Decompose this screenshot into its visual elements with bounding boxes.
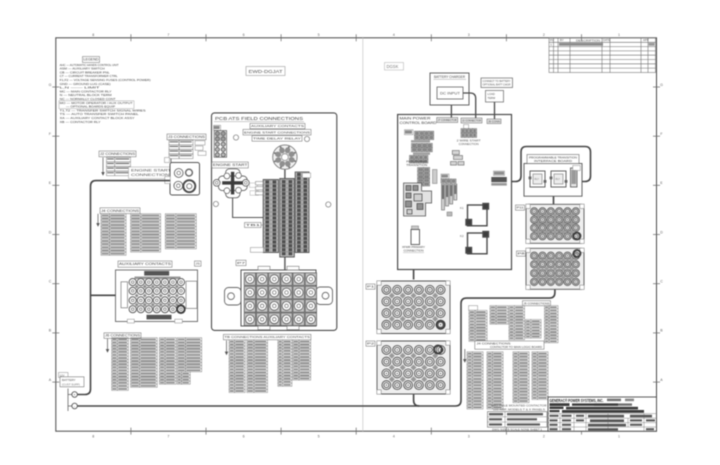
J3 side stub boxes <box>165 141 207 163</box>
PCB mounting holes <box>213 135 331 207</box>
svg-text:P1: P1 <box>367 285 375 289</box>
board DIP fuse strips <box>442 184 457 216</box>
J4 contactor col 3 <box>513 352 529 403</box>
svg-text:P2: P2 <box>367 342 375 346</box>
svg-text:DATE: DATE <box>603 38 610 42</box>
connector table J6 col 4b <box>177 372 190 384</box>
svg-text:CONTROL BOARD: CONTROL BOARD <box>400 121 437 125</box>
transfer start connection block <box>165 163 200 196</box>
engine start sub-label <box>243 129 311 135</box>
board relay K2 loop <box>466 232 489 254</box>
J5 P1 ref box <box>469 306 478 311</box>
svg-text:TERM: TERM <box>488 96 496 100</box>
svg-text:D: D <box>660 230 663 234</box>
svg-text:RLY: RLY <box>556 178 561 181</box>
connect to battery note box <box>481 78 513 88</box>
connector table J5 col 5 <box>545 306 559 343</box>
contactor block P2 label <box>366 341 375 346</box>
J4 contactor col 1 <box>467 352 483 409</box>
svg-text:J4 CONNECTIONS: J4 CONNECTIONS <box>101 209 139 213</box>
engine start DIN connector (cross) <box>213 169 249 198</box>
zone ticks and letters side borders <box>52 87 660 382</box>
J4 contactor col 4 <box>532 352 548 400</box>
connector table J3 <box>169 140 193 158</box>
connector table J6 col 4 <box>177 338 202 372</box>
svg-text:(CUST SUPP): (CUST SUPP) <box>62 382 80 386</box>
wire branch to auxiliary contacts block <box>91 294 116 296</box>
aux contacts ref J1 <box>195 261 202 266</box>
J2 connector label <box>461 118 482 123</box>
revision history table <box>549 38 656 73</box>
svg-text:P11: P11 <box>517 206 524 210</box>
svg-text:CONNECTION: CONNECTION <box>459 142 479 146</box>
J7 connector label <box>437 118 458 123</box>
drawing id box EWD-DGJAT <box>246 67 285 76</box>
main control board title <box>400 117 437 125</box>
connector table J4 col 2 <box>131 214 161 252</box>
svg-text:J2 CONNECTOR: J2 CONNECTOR <box>462 119 481 123</box>
svg-text:K2: K2 <box>460 234 464 238</box>
J4 contactor header <box>475 341 544 349</box>
board output label to transition board <box>491 171 507 186</box>
svg-text:6: 6 <box>243 33 245 37</box>
svg-text:DGSK: DGSK <box>387 64 399 69</box>
svg-text:CONNECTION: CONNECTION <box>404 248 424 252</box>
battery charger box <box>430 73 469 105</box>
svg-text:K1: K1 <box>460 206 464 210</box>
svg-text:4: 4 <box>393 435 395 439</box>
svg-text:BY: BY <box>560 38 564 42</box>
TB connections header <box>223 334 311 339</box>
transition board relay 2 <box>550 171 568 187</box>
board J6 header + pin grids <box>405 130 434 163</box>
battery terminal posts <box>68 389 77 412</box>
svg-text:LOAD: LOAD <box>488 92 495 96</box>
svg-text:4: 4 <box>393 33 395 37</box>
P11 highlighted terminal <box>574 233 581 240</box>
legend abbreviation text lines <box>60 63 151 124</box>
wire main board to contactor P1 <box>413 270 415 280</box>
wire DC input to board J2 <box>463 93 476 118</box>
wire charger to board J7 <box>450 105 452 118</box>
svg-text:J3 CONNECTIONS: J3 CONNECTIONS <box>168 135 205 139</box>
board center small components <box>451 151 465 166</box>
svg-text:J4 CONNECTIONS: J4 CONNECTIONS <box>477 342 511 346</box>
J9 connector label <box>487 119 501 124</box>
svg-text:J7 CONNECTOR: J7 CONNECTOR <box>438 118 457 122</box>
board lower pin strip <box>418 168 430 187</box>
connector table J5 header <box>523 301 551 306</box>
svg-text:APP: APP <box>643 38 649 42</box>
svg-text:TRANSITION: TRANSITION <box>406 163 427 167</box>
svg-text:LEGEND: LEGEND <box>84 58 100 62</box>
svg-text:J5 CONNECTIONS: J5 CONNECTIONS <box>524 301 550 305</box>
contactor block P2 <box>377 341 450 394</box>
wire transition board to contactor P11 <box>553 196 555 204</box>
svg-text:J1: J1 <box>196 262 201 266</box>
svg-text:7: 7 <box>167 435 169 439</box>
time delay sub-label <box>252 136 302 142</box>
PCB ATS field connections block outline <box>212 113 337 331</box>
svg-text:1: 1 <box>618 33 620 37</box>
svg-text:2: 2 <box>543 33 545 37</box>
terminal block P7 (4x6 screw block) <box>225 266 333 329</box>
svg-text:5: 5 <box>318 33 320 37</box>
svg-text:5: 5 <box>318 435 320 439</box>
svg-text:GENERAC® POWER SYSTEMS, INC.: GENERAC® POWER SYSTEMS, INC. <box>550 398 604 403</box>
svg-text:C: C <box>49 280 52 284</box>
zone ticks and numbers top border <box>131 34 582 434</box>
title block <box>548 397 657 431</box>
wire from J3 table to trans start block <box>170 159 172 164</box>
connector table J4 col 3 <box>165 214 196 249</box>
connector table J4 header <box>100 208 140 214</box>
connector table J6 col 1 <box>112 338 129 391</box>
sheet centerline <box>362 38 364 431</box>
svg-text:EWD-DGJAT: EWD-DGJAT <box>249 69 283 74</box>
board relay K1 loop <box>466 204 489 226</box>
board J2 remote connector <box>457 125 482 146</box>
terminal strip TB1 <box>263 180 278 253</box>
engine start pin labels <box>250 183 258 187</box>
svg-text:TB CONNECTIONS AUXILIARY CONT: TB CONNECTIONS AUXILIARY CONTACTS <box>224 335 310 339</box>
connector P6 on PCB <box>214 125 227 157</box>
svg-text:ENGINE START CONNECTIONS: ENGINE START CONNECTIONS <box>244 130 310 134</box>
svg-text:AUXILIARY CONTACTS: AUXILIARY CONTACTS <box>119 262 171 266</box>
contactor block P1 label <box>366 284 375 289</box>
main control board outline <box>398 115 512 270</box>
legend optional group box <box>59 101 134 109</box>
J4 contactor col 2 <box>487 352 503 409</box>
battery label box <box>59 373 85 387</box>
sheet code DGSK <box>385 63 404 71</box>
svg-text:TWO POLE MOUNTED CONTACTOR: TWO POLE MOUNTED CONTACTOR <box>491 404 547 408</box>
contactor block P8 <box>526 248 584 289</box>
svg-text:J9 CONN: J9 CONN <box>488 119 500 123</box>
board transformer component <box>402 226 425 253</box>
TB connections col 1 <box>229 340 245 393</box>
TB connections col 4 <box>293 340 311 380</box>
svg-text:ENGINE START: ENGINE START <box>213 163 248 167</box>
svg-text:P8: P8 <box>518 252 526 256</box>
svg-text:+: + <box>74 393 76 397</box>
svg-text:RLY: RLY <box>535 178 540 181</box>
TB connections col 3 <box>278 340 292 387</box>
programmable transition interface board <box>524 155 582 197</box>
wire contactor P2 to negative run <box>414 394 420 406</box>
P7 label <box>236 260 246 265</box>
aux contacts sub-label <box>250 123 305 128</box>
svg-text:DC INPUT: DC INPUT <box>440 91 460 95</box>
engine start label <box>212 162 249 168</box>
svg-text:8: 8 <box>92 435 94 439</box>
svg-text:DWG SIZE B SCALE NONE SHEET: DWG SIZE B SCALE NONE SHEET 1 <box>492 428 543 432</box>
svg-text:CONNECT TO BATTERY: CONNECT TO BATTERY <box>483 79 511 83</box>
svg-text:C: C <box>660 280 663 284</box>
connector table J6 col 2 <box>131 338 158 388</box>
contactor block P8 label <box>517 251 526 256</box>
svg-text:OPTIONAL BATT CHGR: OPTIONAL BATT CHGR <box>483 83 511 87</box>
svg-text:XB — CONTACTOR RLY: XB — CONTACTOR RLY <box>60 120 101 124</box>
svg-text:J6 CONNECTIONS: J6 CONNECTIONS <box>105 334 140 338</box>
svg-text:3: 3 <box>468 33 470 37</box>
drawing border frame <box>56 38 657 431</box>
connector table J3 header <box>167 134 206 140</box>
connector table J4 col 1 <box>101 214 126 256</box>
wire strips to P7 terminal block <box>284 257 286 271</box>
svg-text:1: 1 <box>618 435 620 439</box>
P8 highlighted terminal <box>574 250 581 257</box>
load terminal box <box>486 91 504 103</box>
contactor block P11 <box>526 204 584 243</box>
auxiliary contacts header <box>118 261 172 267</box>
svg-text:RV: RV <box>550 38 554 42</box>
terminal strip TB2 <box>280 179 295 258</box>
board relay footprint cluster <box>404 183 432 216</box>
TB connections col 2 <box>247 340 268 393</box>
svg-text:AUXILIARY CONTACTS: AUXILIARY CONTACTS <box>251 124 304 128</box>
connector table J6 col 3 <box>159 338 176 385</box>
wire engine start connector to strip <box>233 198 263 218</box>
svg-text:DESCRIPTION: DESCRIPTION <box>576 38 600 42</box>
svg-text:3: 3 <box>468 435 470 439</box>
TB strip finger contacts <box>256 182 264 195</box>
programmed transition label <box>406 160 428 167</box>
wire battery positive to engine start block <box>77 181 170 395</box>
svg-text:ENGINE START: ENGINE START <box>131 169 171 173</box>
transition board edge connector <box>571 166 581 188</box>
transition board relay 1 <box>529 171 547 187</box>
svg-text:100 AMP, MODELS T & X PANELS: 100 AMP, MODELS T & X PANELS <box>493 407 545 411</box>
svg-text:P7: P7 <box>237 261 246 265</box>
svg-text:J2 CONNECTIONS: J2 CONNECTIONS <box>100 152 135 156</box>
contactor block P1 <box>377 281 450 334</box>
wire fan to terminal strips <box>284 170 286 180</box>
svg-text:6: 6 <box>243 435 245 439</box>
connector table J5 col 4 <box>526 320 542 339</box>
connector table J2 header <box>99 151 136 157</box>
svg-text:BATTERY CHARGER: BATTERY CHARGER <box>434 75 466 79</box>
model number note table <box>488 404 547 432</box>
connector table J2 <box>107 157 131 175</box>
board J8 connector <box>441 174 456 183</box>
connector table J5 col 1 <box>469 310 487 341</box>
svg-text:8: 8 <box>92 33 94 37</box>
svg-text:TB1: TB1 <box>246 223 261 227</box>
svg-text:D: D <box>49 230 52 234</box>
TB1 ref label <box>245 223 262 228</box>
svg-text:G: G <box>49 83 52 87</box>
wire battery negative main run <box>77 290 555 407</box>
wire load terminal to board J9 <box>494 102 496 119</box>
terminal strip TB3 <box>295 172 309 253</box>
auxiliary contacts connector block <box>116 270 198 323</box>
svg-text:2: 2 <box>543 435 545 439</box>
P2 highlighted terminal <box>434 346 442 354</box>
legend header <box>83 57 100 63</box>
wire main board to transition interface board (loop) <box>512 147 591 182</box>
connector table J5 col 3 <box>509 306 525 340</box>
TB strip bottom pins label <box>250 248 263 253</box>
engine start connections label <box>129 167 173 179</box>
contactor block P11 label <box>516 205 525 210</box>
connector table J6 header <box>104 333 141 339</box>
svg-text:TIME DELAY RELAY: TIME DELAY RELAY <box>253 137 301 141</box>
P1 highlighted terminal <box>437 321 445 329</box>
connector table J5 col 2 <box>490 306 508 325</box>
svg-text:7: 7 <box>167 33 169 37</box>
svg-text:PCB ATS FIELD CONNECTIONS: PCB ATS FIELD CONNECTIONS <box>215 116 303 121</box>
svg-text:G: G <box>660 83 663 87</box>
svg-text:CONTACTOR TO MAIN LOGIC BOARD: CONTACTOR TO MAIN LOGIC BOARD <box>490 345 542 349</box>
svg-text:INTERFACE BOARD: INTERFACE BOARD <box>534 159 572 163</box>
time delay relay rotary (fan) component <box>273 145 297 169</box>
